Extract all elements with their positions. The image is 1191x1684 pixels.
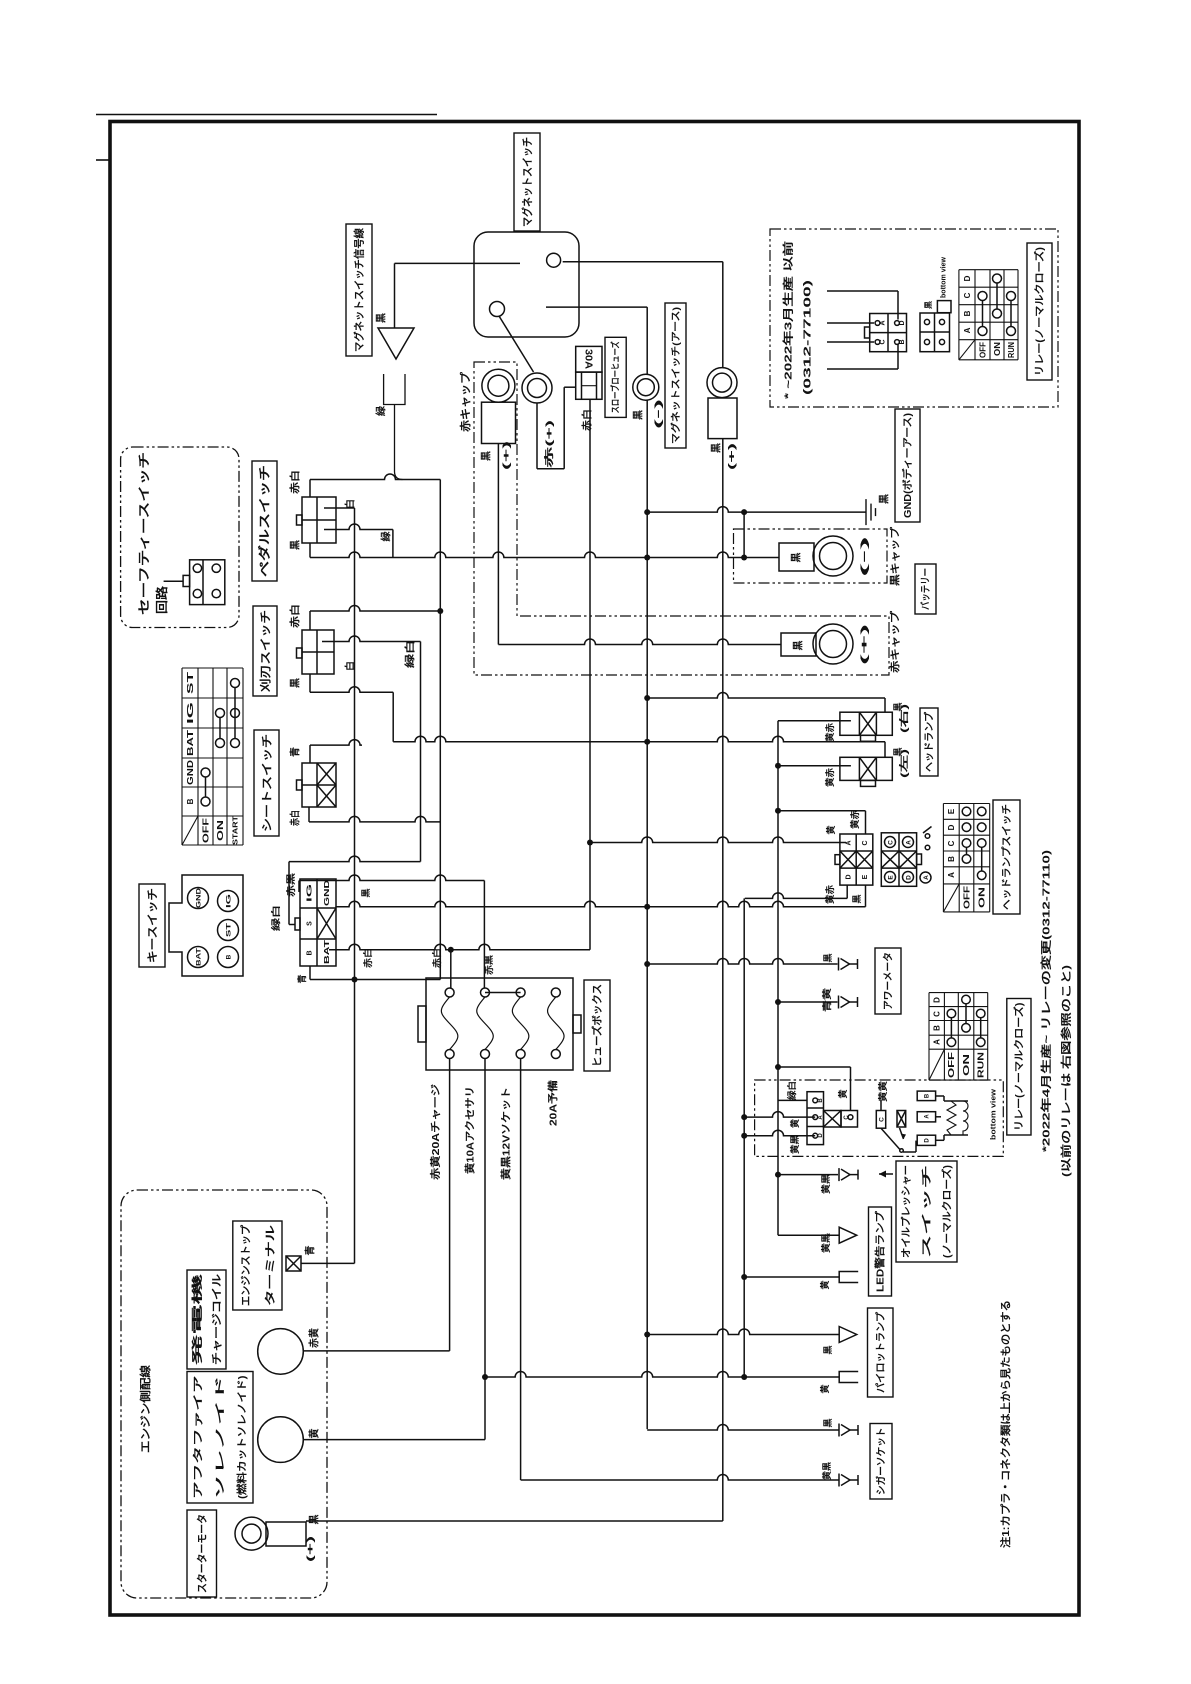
svg-text:黄黒: 黄黒: [821, 1462, 832, 1480]
svg-text:A: A: [905, 840, 912, 845]
earth ring terminal: [633, 374, 659, 400]
svg-text:A: A: [925, 1114, 931, 1119]
svg-text:緑白: 緑白: [404, 640, 417, 668]
magnet switch body: [474, 232, 579, 337]
svg-text:C: C: [947, 840, 956, 846]
svg-text:黒: 黒: [481, 451, 493, 461]
starter cable trunk wire: [722, 439, 724, 1521]
relay1 contacts ON D-B: [993, 274, 1002, 283]
svg-text:黒: 黒: [823, 1345, 833, 1354]
svg-text:IG: IG: [306, 883, 313, 902]
svg-text:緑白: 緑白: [270, 905, 281, 931]
svg-text:LED警告ランプ: LED警告ランプ: [874, 1210, 887, 1292]
svg-text:青: 青: [289, 747, 302, 757]
ST wire green-white: [289, 856, 421, 861]
wire magnet switch earth to ground trunk: [546, 306, 647, 308]
wire seat blue pin: [309, 745, 311, 763]
svg-text:ターミナル: ターミナル: [264, 1224, 276, 1306]
engine side harness enclosure エンジン側配線: [121, 1190, 327, 1598]
svg-text:回路: 回路: [154, 585, 169, 614]
relay2 connector: [807, 1092, 824, 1145]
magnet switch earth label マグネットスイッチ（アース）: [665, 303, 686, 448]
svg-text:ON: ON: [216, 820, 225, 841]
relay2 coil and resistor: [936, 1095, 944, 1097]
pilot yellow female terminal: [839, 1372, 858, 1383]
svg-text:マグネットスイッチ(アース): マグネットスイッチ(アース): [670, 307, 682, 444]
GND label GND（ボディーアース）: [895, 409, 920, 522]
svg-text:D: D: [963, 275, 972, 281]
svg-text:緑白: 緑白: [786, 1081, 797, 1100]
blade switch label 刈刃スイッチ: [253, 606, 277, 696]
svg-text:*2022年4月生産~ リレーの変更(0312-77110): *2022年4月生産~ リレーの変更(0312-77110): [1040, 850, 1053, 1152]
svg-text:(+): (+): [859, 624, 869, 665]
svg-text:A: A: [933, 1039, 942, 1045]
svg-text:RUN: RUN: [1007, 342, 1016, 358]
svg-text:黄: 黄: [308, 1429, 321, 1439]
safety switch circuit dashed enclosure セーフティースイッチ回路: [121, 447, 239, 628]
headlamp feed wire: [777, 721, 779, 1235]
svg-text:A: A: [923, 875, 930, 880]
svg-text:ON: ON: [978, 887, 987, 908]
svg-text:30A: 30A: [582, 349, 593, 369]
pedal switch label ペダルスイッチ: [252, 461, 277, 581]
signal wire down to bullet connector: [394, 263, 396, 328]
svg-text:黒: 黒: [923, 301, 933, 309]
svg-text:黒キャップ: 黒キャップ: [889, 526, 902, 586]
cigar black spade: [850, 1429, 858, 1431]
svg-text:GND(ボディーアース): GND(ボディーアース): [901, 413, 914, 518]
svg-text:青: 青: [304, 1246, 317, 1256]
pilot lamp label パイロットランプ: [868, 1308, 894, 1397]
svg-text:ST: ST: [186, 672, 195, 694]
charge coil: [258, 1329, 304, 1375]
svg-text:E: E: [862, 874, 869, 879]
svg-text:C: C: [933, 1011, 942, 1017]
svg-text:バッテリー: バッテリー: [920, 568, 932, 610]
LED yellow-black spade upper: [850, 1174, 858, 1176]
oil pressure switch lever: [881, 1128, 900, 1149]
relay1 wire stub D: [827, 290, 898, 292]
svg-text:IG: IG: [186, 702, 195, 724]
svg-text:黄赤: 黄赤: [824, 723, 835, 742]
wire headlamp switch D yellow-red: [846, 885, 848, 898]
svg-text:黒: 黒: [376, 313, 388, 323]
IG wire red-black: [298, 881, 300, 893]
svg-text:マグネットスイッチ: マグネットスイッチ: [520, 137, 534, 227]
svg-text:GND: GND: [324, 880, 331, 906]
battery plus cable wire: [498, 639, 781, 645]
svg-text:B: B: [925, 1093, 931, 1098]
svg-text:B: B: [899, 339, 906, 344]
relay1 contact table: [959, 269, 1018, 271]
svg-text:S: S: [306, 921, 313, 926]
svg-text:黄赤: 黄赤: [849, 810, 860, 829]
svg-text:ソレノイド: ソレノイド: [215, 1376, 227, 1500]
ground branch wire to body earth: [647, 507, 865, 512]
key switch label キースイッチ: [139, 884, 165, 967]
charge coil label 発電機チャージコイル: [187, 1270, 226, 1369]
wire hour meter black: [647, 959, 837, 964]
wire pilot black: [647, 1329, 839, 1335]
wire magnet switch B pin to battery terminal: [563, 261, 723, 263]
svg-text:マグネットスイッチ信号線: マグネットスイッチ信号線: [353, 228, 366, 352]
key switch contacts START BAT-IG-ST: [231, 679, 240, 688]
svg-text:20A予備: 20A予備: [547, 1080, 560, 1126]
LED yellow female terminal: [839, 1272, 858, 1283]
key switch contact table: [182, 667, 243, 669]
svg-text:黒: 黒: [791, 553, 803, 563]
page frame: title underline: [96, 114, 437, 116]
hour meter black spade: [850, 963, 858, 965]
relay2 wire D: [744, 1130, 815, 1136]
relay2 wire A: [744, 1112, 815, 1118]
svg-text:黄10Aアクセサリ: 黄10Aアクセサリ: [464, 1086, 477, 1174]
BAT wire red-white: [329, 944, 590, 950]
fuse 2-3 link bar: [485, 992, 521, 994]
fuse wire stubs: [450, 950, 452, 988]
LED warning lamp label ＬＥＤ警告ランプ: [869, 1207, 892, 1296]
svg-text:ペダルスイッチ: ペダルスイッチ: [257, 465, 272, 577]
hour meter label アワーメータ: [875, 948, 901, 1014]
svg-text:青黄: 青黄: [821, 988, 832, 1012]
afterfire solenoid: [258, 1417, 304, 1463]
battery plus ring terminal: [813, 624, 853, 664]
wire headlamp switch A yellow: [590, 837, 846, 843]
relay1 contacts OFF C-A: [978, 292, 987, 301]
svg-text:リレー(ノーマルクローズ): リレー(ノーマルクローズ): [1012, 1003, 1025, 1132]
bullet connector female: [384, 374, 405, 405]
starter motor label スターターモータ: [187, 1510, 217, 1597]
seat switch label シートスイッチ: [254, 730, 279, 836]
svg-text:発電機: 発電機: [190, 1273, 203, 1368]
wire headlamp left black: [393, 736, 885, 741]
svg-text:黒: 黒: [309, 1515, 321, 1525]
cigar socket label シガーソケット: [870, 1424, 892, 1500]
safety switch connector: [190, 560, 225, 605]
svg-text:黒: 黒: [290, 678, 302, 688]
wire headlamp left yellow-red: [778, 765, 851, 767]
white trunk wire: [354, 508, 356, 1263]
svg-text:C: C: [879, 339, 886, 344]
svg-text:OFF: OFF: [978, 342, 987, 358]
fuse box: [426, 978, 573, 1070]
fuse box label ヒューズボックス: [584, 980, 610, 1071]
svg-text:シートスイッチ: シートスイッチ: [260, 734, 273, 832]
svg-text:黄赤: 黄赤: [824, 885, 835, 904]
slow blow fuse label スローブローヒューズ: [605, 337, 626, 417]
svg-text:D: D: [947, 824, 956, 830]
svg-text:B: B: [963, 310, 972, 316]
oil pressure switch label オイルプレッシャースイッチ: [896, 1161, 957, 1262]
headlamp left connector: [840, 757, 892, 780]
svg-text:黄黒12Vソケット: 黄黒12Vソケット: [500, 1087, 513, 1180]
svg-text:スローブローヒューズ: スローブローヒューズ: [610, 341, 621, 413]
svg-text:黒: 黒: [823, 1418, 833, 1427]
svg-text:黒: 黒: [361, 888, 371, 897]
wire hour meter blue-yellow: [778, 1001, 838, 1003]
wire stub from safety switch: [164, 580, 184, 582]
svg-text:リレー(ノーマルクローズ): リレー(ノーマルクローズ): [1033, 247, 1046, 376]
svg-text:黒: 黒: [711, 443, 723, 453]
svg-text:黒: 黒: [823, 953, 833, 962]
wire blade red-white up to junction: [309, 611, 311, 630]
ring terminal at slow blow fuse: [522, 373, 552, 403]
wire pilot yellow: [485, 1372, 839, 1378]
svg-text:赤黒: 赤黒: [483, 955, 494, 975]
svg-text:スイッチ: スイッチ: [921, 1165, 933, 1258]
svg-text:黄: 黄: [837, 1089, 848, 1098]
wire ring to slow-blow fuse: [536, 403, 538, 469]
GND wire black trunk: [335, 901, 865, 907]
svg-text:OFF: OFF: [201, 818, 210, 843]
relay2 wire B: [778, 1099, 807, 1101]
key switch contacts ON BAT-IG: [216, 709, 225, 718]
svg-text:bottom view: bottom view: [989, 1089, 998, 1140]
relay2 contact table: [929, 992, 988, 994]
svg-text:ST: ST: [225, 923, 232, 937]
battery minus cap enclosure (black cap): [734, 529, 888, 583]
svg-text:注1:カプラ・コネクタ類は上から見たものとする: 注1:カプラ・コネクタ類は上から見たものとする: [999, 1300, 1012, 1548]
svg-text:赤白: 赤白: [362, 948, 373, 968]
svg-text:赤白: 赤白: [289, 470, 302, 494]
wire engine stop: [301, 1262, 355, 1264]
svg-text:アワーメータ: アワーメータ: [883, 952, 895, 1010]
svg-text:D: D: [899, 320, 906, 325]
pedal pin stubs: [324, 507, 355, 509]
svg-text:(+): (+): [305, 1536, 315, 1562]
wire headlamp switch E black: [865, 885, 867, 907]
svg-text:白: 白: [344, 499, 357, 509]
ST wire blade white down: [420, 642, 422, 862]
svg-text:(+): (+): [727, 443, 737, 470]
afterfire solenoid label アフタファイアソレノイド: [187, 1372, 253, 1504]
svg-text:C: C: [844, 1115, 850, 1120]
fuse elements: [445, 988, 454, 997]
svg-text:青: 青: [296, 974, 307, 983]
headlamp label ヘッドランプ: [920, 708, 938, 776]
page frame: left fold tick: [96, 159, 110, 161]
seat switch connector: [302, 763, 336, 807]
svg-text:A: A: [963, 327, 972, 333]
magnet switch label マグネットスイッチ: [514, 133, 540, 231]
svg-text:黄: 黄: [789, 1119, 800, 1128]
wire oil switch to spade: [778, 1174, 838, 1176]
svg-text:黒: 黒: [633, 410, 645, 420]
svg-text:黒: 黒: [290, 540, 302, 550]
svg-text:(0312-77100): (0312-77100): [802, 280, 814, 395]
B+ ring terminal at magnet switch: [707, 368, 737, 398]
wire seat red-white pin: [308, 807, 310, 822]
cigar yellow-black spade: [850, 1479, 858, 1481]
svg-text:ヒューズボックス: ヒューズボックス: [591, 984, 604, 1067]
svg-text:D: D: [818, 1133, 824, 1138]
magnet switch pin S: [490, 302, 505, 317]
black trunk wire to battery minus: [310, 552, 779, 558]
svg-text:黒: 黒: [879, 494, 891, 504]
svg-text:bottom view: bottom view: [939, 257, 948, 298]
svg-text:IG: IG: [225, 894, 232, 908]
battery plus cap enclosure (red cap): [474, 362, 889, 675]
battery minus ring terminal: [813, 536, 853, 576]
svg-text:オイルプレッシャー: オイルプレッシャー: [900, 1165, 913, 1258]
svg-text:B: B: [186, 798, 195, 804]
blade white pin stub: [322, 636, 421, 641]
slow blow fuse 30A: [576, 346, 602, 372]
svg-text:BAT: BAT: [324, 939, 331, 964]
relay2 wire C: [850, 1067, 852, 1111]
svg-text:E: E: [887, 875, 894, 880]
svg-text:アフタファイア: アフタファイア: [193, 1376, 205, 1500]
headlamp switch contacts OFF: [962, 807, 971, 816]
svg-text:BAT: BAT: [195, 948, 202, 966]
svg-text:C: C: [963, 292, 972, 298]
relay2 dashed enclosure: [755, 1080, 1004, 1156]
wire LED yellow terminal: [744, 1276, 839, 1278]
svg-text:ヘッドランプスイッチ: ヘッドランプスイッチ: [1000, 804, 1013, 910]
svg-text:黄黒: 黄黒: [789, 1135, 800, 1154]
svg-text:B: B: [306, 950, 313, 955]
svg-text:赤白: 赤白: [289, 604, 302, 628]
svg-text:(ノーマルクローズ): (ノーマルクローズ): [940, 1165, 953, 1258]
relay1 wire stub C: [827, 341, 874, 343]
svg-text:(+): (+): [501, 441, 511, 470]
svg-text:ON: ON: [993, 342, 1002, 356]
svg-text:GND: GND: [186, 760, 195, 785]
svg-text:C: C: [862, 840, 869, 845]
svg-text:OFF: OFF: [947, 1052, 956, 1078]
wire pedal black down to trunk: [309, 543, 311, 558]
wire from + terminal down to battery + line: [497, 444, 499, 645]
svg-text:刈刃スイッチ: 刈刃スイッチ: [258, 610, 272, 692]
relay1 body symbol (bottom view): [920, 313, 950, 352]
LED triangle spade: [839, 1227, 857, 1243]
headlamp switch table: [943, 803, 989, 805]
svg-text:C: C: [878, 1117, 885, 1122]
wire blade black down: [309, 674, 311, 692]
blade switch connector: [302, 630, 334, 674]
magnet switch pin B: [547, 253, 561, 267]
svg-text:黒: 黒: [852, 894, 862, 903]
magnet switch signal line label マグネットスイッチ信号線: [346, 224, 372, 356]
svg-text:(燃料カットソレノイド): (燃料カットソレノイド): [236, 1376, 249, 1500]
relay1 label リレー（ノーマルクローズ）: [1027, 243, 1052, 380]
wire solenoid: [303, 1439, 485, 1441]
wire pedal green down: [392, 530, 394, 558]
svg-text:黄赤: 黄赤: [824, 768, 835, 787]
svg-text:赤白: 赤白: [289, 810, 302, 826]
relay2 label リレー（ノーマルクローズ）: [1007, 999, 1031, 1136]
ground symbol (body earth): [865, 499, 867, 525]
battery label バッテリー: [915, 564, 936, 614]
svg-text:A: A: [879, 320, 886, 325]
pilot black triangle spade: [839, 1327, 857, 1343]
svg-text:RUN: RUN: [977, 1052, 986, 1078]
engine stop terminal: [286, 1256, 301, 1271]
key switch contacts OFF GND-B: [201, 768, 210, 777]
svg-text:(-): (-): [859, 536, 869, 577]
svg-text:A: A: [845, 840, 852, 845]
svg-text:B: B: [225, 954, 232, 959]
svg-text:GND: GND: [195, 888, 202, 908]
starter motor ring terminal: [235, 1517, 268, 1550]
svg-text:OFF: OFF: [962, 886, 971, 909]
svg-text:D: D: [925, 1138, 931, 1143]
red-white vertical wire: [439, 480, 441, 980]
svg-text:A: A: [947, 872, 956, 878]
svg-text:黄: 黄: [819, 1280, 830, 1289]
relay2 contacts ON D-B: [962, 995, 971, 1004]
relay2 contacts OFF C-A: [947, 1009, 956, 1018]
headlamp switch connector B (bottom view): [881, 833, 916, 887]
svg-text:スターターモータ: スターターモータ: [196, 1514, 208, 1593]
bullet connector male (triangle): [378, 328, 414, 359]
wire starter motor cable: [306, 1520, 723, 1522]
signal wire from bullet down to pedal net: [395, 405, 403, 480]
ring terminal (magnet switch +): [482, 369, 515, 402]
svg-text:ON: ON: [962, 1054, 971, 1076]
headlamp right connector: [840, 712, 892, 735]
svg-text:シガーソケット: シガーソケット: [875, 1428, 888, 1496]
svg-text:ヘッドランプ: ヘッドランプ: [923, 711, 936, 772]
wire magnet switch S pin to left: [395, 262, 521, 264]
relay1 wire stub B: [827, 368, 898, 370]
svg-text:START: START: [231, 816, 240, 845]
svg-text:赤キャップ: 赤キャップ: [458, 371, 472, 432]
svg-text:エンジンストップ: エンジンストップ: [239, 1225, 252, 1306]
svg-text:黄黒: 黄黒: [820, 1233, 831, 1253]
svg-text:パイロットランプ: パイロットランプ: [874, 1311, 887, 1393]
headlamp switch label ヘッドランプスイッチ: [993, 800, 1020, 914]
diagonal wire S pin to slow-blow ring: [499, 316, 534, 372]
wire charge coil: [303, 1350, 449, 1352]
relay (old type) dashed enclosure: [770, 229, 1058, 407]
drawing border frame: [110, 122, 1079, 1616]
svg-text:黒: 黒: [793, 641, 805, 651]
svg-text:セーフティースイッチ: セーフティースイッチ: [137, 452, 151, 615]
svg-text:赤キャップ: 赤キャップ: [889, 610, 902, 673]
wire ground line down to battery minus: [743, 512, 745, 557]
svg-text:(以前のリレーは 右図参照のこと): (以前のリレーは 右図参照のこと): [1060, 965, 1073, 1177]
hour meter blue-yellow spade: [850, 1001, 858, 1003]
svg-text:キースイッチ: キースイッチ: [146, 888, 159, 963]
svg-text:B: B: [947, 856, 956, 862]
svg-text:C: C: [887, 840, 894, 845]
ground trunk wire (black): [646, 307, 648, 374]
relay1 wire stub A: [827, 322, 874, 324]
svg-text:* ~2022年3月生産 以前: * ~2022年3月生産 以前: [782, 240, 795, 399]
svg-text:(右): (右): [898, 704, 909, 733]
svg-text:赤白: 赤白: [580, 409, 593, 431]
svg-text:緑: 緑: [375, 405, 388, 416]
wire cigar yellow-black: [521, 1475, 839, 1481]
svg-text:(-): (-): [653, 399, 663, 429]
wire cigar black: [647, 1425, 839, 1431]
svg-text:D: D: [933, 997, 942, 1003]
svg-text:黄: 黄: [819, 1384, 830, 1393]
svg-text:D: D: [845, 874, 852, 879]
svg-text:黄黒: 黄黒: [820, 1174, 831, 1194]
relay1 connector: [870, 314, 907, 352]
engine stop terminal label エンジンストップターミナル: [233, 1221, 282, 1310]
relay2 coil terminals: [917, 1091, 935, 1101]
svg-text:BAT: BAT: [186, 730, 195, 756]
wire headlamp right yellow-red: [778, 720, 851, 722]
wire headlamp switch C yellow-red: [778, 810, 866, 812]
wire headlamp right black: [647, 693, 885, 699]
main connector (key switch harness): [300, 879, 336, 966]
oil pressure switch symbol: [876, 1111, 885, 1129]
svg-text:(左): (左): [898, 749, 909, 778]
